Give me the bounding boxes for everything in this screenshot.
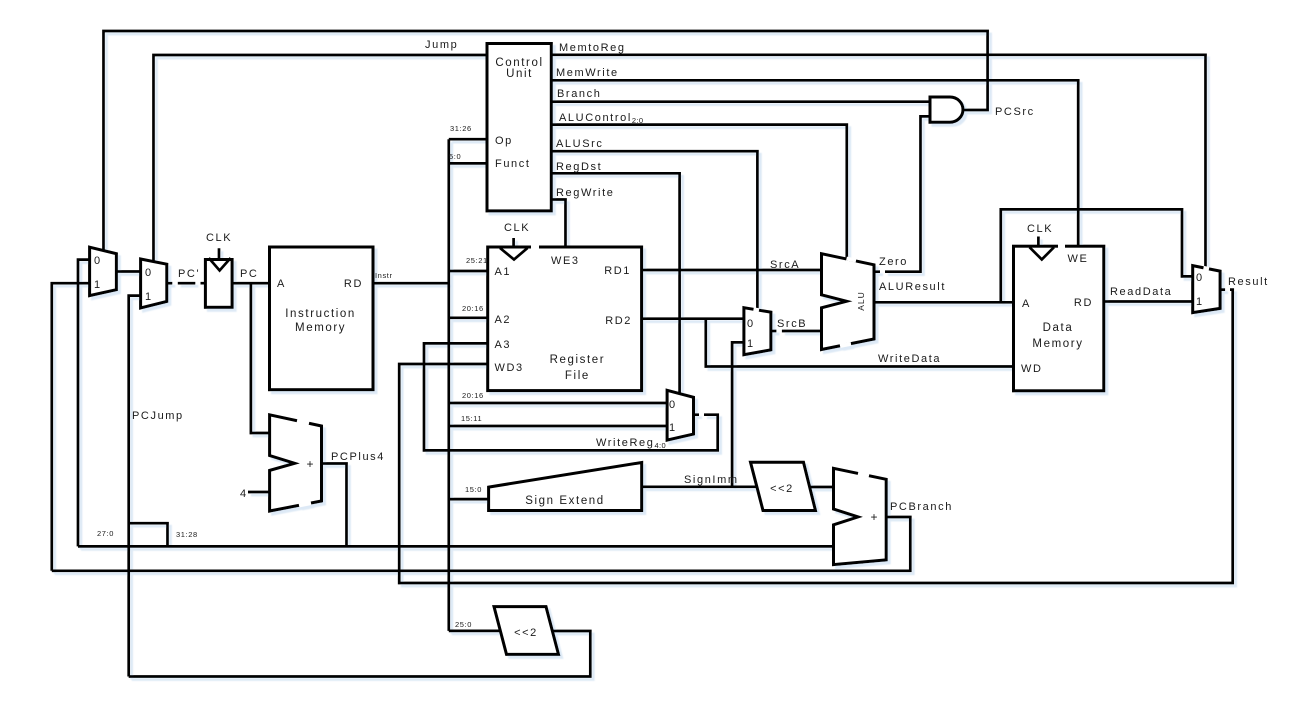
svg-text:Funct: Funct [495, 158, 531, 170]
svg-text:20:16: 20:16 [462, 391, 484, 400]
svg-text:ALU: ALU [856, 291, 866, 311]
svg-text:MemtoReg: MemtoReg [559, 42, 626, 54]
svg-text:25:21: 25:21 [466, 256, 488, 265]
svg-text:PC': PC' [178, 268, 200, 280]
svg-text:MemWrite: MemWrite [556, 67, 619, 79]
svg-text:WE: WE [1068, 253, 1089, 265]
svg-text:CLK: CLK [206, 232, 232, 244]
svg-text:31:26: 31:26 [450, 124, 472, 133]
svg-text:A: A [1022, 298, 1031, 310]
svg-text:Branch: Branch [557, 88, 601, 100]
svg-text:A3: A3 [495, 339, 512, 351]
svg-text:File: File [565, 370, 590, 382]
svg-text:PC: PC [240, 268, 258, 280]
svg-text:RegDst: RegDst [556, 161, 602, 173]
svg-text:<<2: <<2 [514, 627, 538, 639]
svg-text:PCJump: PCJump [132, 410, 184, 422]
svg-text:RD2: RD2 [605, 315, 632, 327]
svg-text:+: + [306, 457, 313, 471]
svg-text:A1: A1 [495, 266, 512, 278]
svg-text:31:28: 31:28 [176, 530, 198, 539]
svg-text:<<2: <<2 [770, 483, 794, 495]
svg-text:Instr: Instr [375, 271, 393, 280]
svg-text:1: 1 [747, 338, 753, 350]
svg-text:WD: WD [1021, 363, 1043, 375]
svg-text:RD: RD [1074, 297, 1093, 309]
svg-text:0: 0 [1196, 272, 1202, 284]
svg-text:0: 0 [747, 318, 753, 330]
svg-text:Zero: Zero [879, 256, 908, 268]
svg-text:PCBranch: PCBranch [890, 501, 953, 513]
svg-text:1: 1 [1196, 296, 1202, 308]
svg-text:1: 1 [94, 279, 100, 291]
svg-text:SrcB: SrcB [777, 318, 807, 330]
svg-text:A: A [277, 278, 286, 290]
svg-text:25:0: 25:0 [455, 620, 472, 629]
svg-text:RD: RD [344, 278, 363, 290]
svg-text:Memory: Memory [295, 322, 346, 334]
svg-text:ALUResult: ALUResult [879, 281, 946, 293]
svg-text:Data: Data [1043, 322, 1074, 334]
svg-text:CLK: CLK [1027, 223, 1053, 235]
svg-text:RD1: RD1 [604, 265, 631, 277]
svg-text:Register: Register [550, 354, 606, 366]
svg-text:0: 0 [94, 255, 100, 267]
svg-text:27:0: 27:0 [97, 529, 114, 538]
svg-text:WD3: WD3 [495, 362, 524, 374]
svg-text:Op: Op [495, 135, 513, 147]
svg-text:15:0: 15:0 [465, 485, 482, 494]
svg-text:Unit: Unit [506, 68, 533, 80]
svg-text:WriteData: WriteData [878, 353, 941, 365]
svg-text:SignImm: SignImm [684, 474, 739, 486]
svg-text:PCSrc: PCSrc [995, 106, 1035, 118]
svg-text:0: 0 [145, 267, 151, 279]
svg-text:CLK: CLK [504, 222, 530, 234]
svg-text:+: + [870, 510, 877, 524]
svg-text:Result: Result [1228, 276, 1269, 288]
svg-text:RegWrite: RegWrite [556, 187, 614, 199]
svg-text:Jump: Jump [425, 39, 458, 51]
svg-text:0: 0 [669, 399, 675, 411]
svg-text:PCPlus4: PCPlus4 [331, 451, 385, 463]
svg-text:WE3: WE3 [551, 255, 580, 267]
svg-text:ReadData: ReadData [1110, 286, 1172, 298]
svg-text:A2: A2 [495, 314, 512, 326]
svg-text:1: 1 [145, 291, 151, 303]
svg-text:5:0: 5:0 [449, 152, 461, 161]
svg-text:Sign Extend: Sign Extend [525, 495, 605, 507]
svg-text:ALUSrc: ALUSrc [556, 138, 604, 150]
svg-text:20:16: 20:16 [462, 304, 484, 313]
svg-text:15:11: 15:11 [461, 414, 482, 423]
svg-text:ALUControl2:0: ALUControl2:0 [559, 112, 644, 125]
svg-text:1: 1 [669, 422, 675, 434]
svg-text:SrcA: SrcA [770, 259, 800, 271]
svg-text:Instruction: Instruction [285, 308, 356, 320]
svg-text:Memory: Memory [1032, 338, 1083, 350]
svg-text:4: 4 [240, 488, 248, 500]
